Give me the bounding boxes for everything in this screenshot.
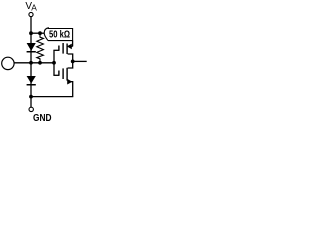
- svg-text:A: A: [31, 2, 37, 12]
- svg-text:GND: GND: [33, 113, 52, 124]
- svg-text:50 kΩ: 50 kΩ: [49, 30, 70, 41]
